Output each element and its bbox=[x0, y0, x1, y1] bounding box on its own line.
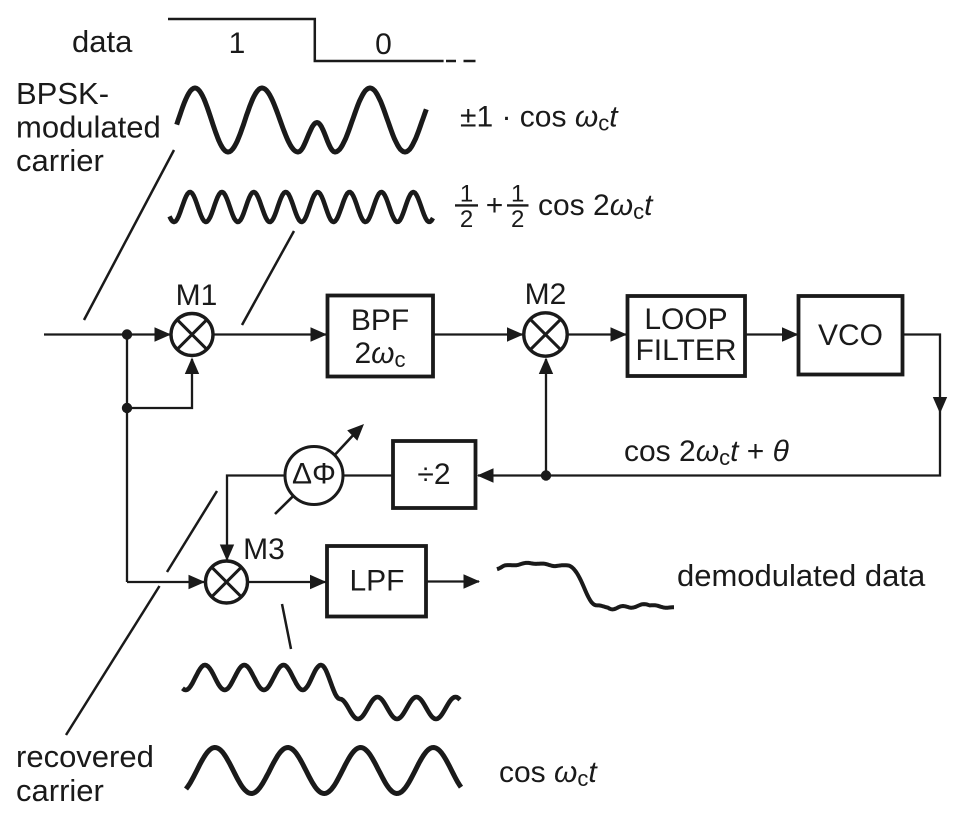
wire M2 to loop filter bbox=[567, 333, 626, 335]
svg-text:LOOP: LOOP bbox=[644, 303, 727, 336]
svg-text:M1: M1 bbox=[176, 279, 218, 312]
svg-text:BPF: BPF bbox=[351, 304, 409, 337]
svg-text:M3: M3 bbox=[243, 533, 285, 566]
BPSK modulated carrier waveform bbox=[177, 88, 427, 152]
wire phase shifter to M3 bbox=[227, 476, 285, 561]
mixer M3 bbox=[206, 561, 248, 603]
input wire bbox=[44, 333, 170, 335]
squared 2wc waveform bbox=[170, 192, 434, 222]
pointer line from M3 to product waveform bbox=[282, 604, 291, 649]
tap wire into M1 lower port bbox=[127, 359, 192, 408]
junction node on feedback wire bbox=[541, 470, 551, 480]
BPF box bbox=[328, 296, 434, 377]
divide-by-2 box bbox=[393, 441, 476, 508]
vertical tap wire from input node bbox=[126, 335, 128, 583]
arrow into divider bbox=[477, 468, 494, 482]
recovered carrier waveform bbox=[186, 748, 461, 794]
pointer line from recovered carrier label (upper part) bbox=[167, 491, 217, 572]
wire BPF to M2 bbox=[433, 333, 523, 335]
arrow down on feedback wire bbox=[933, 397, 947, 414]
arrow up into M2 bbox=[539, 358, 553, 375]
VCO output feedback wire bbox=[478, 335, 940, 476]
wire divider to phase shifter bbox=[343, 474, 393, 476]
pointer line from 2wc waveform to M1 output wire bbox=[242, 231, 294, 325]
svg-text:data: data bbox=[72, 24, 133, 59]
svg-text:1: 1 bbox=[460, 181, 473, 208]
arrow LPF output bbox=[464, 574, 481, 588]
svg-text:VCO: VCO bbox=[818, 319, 883, 352]
M3 product waveform bbox=[183, 665, 461, 719]
phase shifter variable arrow bbox=[275, 431, 357, 514]
svg-text:cos 2ωct + θ: cos 2ωct + θ bbox=[624, 435, 790, 470]
svg-text:+: + bbox=[486, 189, 504, 222]
svg-text:±1 · cos ωct: ±1 · cos ωct bbox=[460, 101, 619, 136]
svg-text:2: 2 bbox=[460, 206, 473, 233]
wire feedback node up into M2 bbox=[545, 359, 547, 476]
arrow into VCO bbox=[782, 327, 799, 341]
svg-text:÷2: ÷2 bbox=[417, 458, 450, 491]
svg-text:demodulated data: demodulated data bbox=[677, 558, 926, 593]
arrow into BPF bbox=[311, 327, 328, 341]
wire tap to M3 bbox=[127, 581, 205, 583]
arrow up into M1 bbox=[185, 358, 199, 375]
VCO box bbox=[799, 296, 903, 375]
data step waveform bbox=[168, 19, 444, 61]
svg-text:carrier: carrier bbox=[16, 773, 104, 808]
svg-text:ΔΦ: ΔΦ bbox=[292, 458, 336, 491]
wire M1 to BPF bbox=[213, 333, 326, 335]
LPF box bbox=[327, 546, 426, 617]
svg-text:1: 1 bbox=[229, 27, 246, 60]
data step continuation dashes bbox=[446, 60, 476, 63]
mixer M2 bbox=[524, 313, 567, 356]
arrow into M1 bbox=[155, 327, 172, 341]
svg-text:recovered: recovered bbox=[16, 739, 154, 774]
svg-text:M2: M2 bbox=[525, 278, 567, 311]
svg-text:BPSK-: BPSK- bbox=[16, 76, 109, 111]
junction node on input wire bbox=[122, 329, 132, 339]
phase shifter circle bbox=[285, 447, 343, 505]
loop filter box bbox=[628, 296, 746, 376]
junction node on tap wire bbox=[122, 403, 132, 413]
wire LPF output bbox=[426, 580, 479, 582]
demodulated data waveform bbox=[497, 563, 674, 610]
pointer line from BPSK carrier label to input wire bbox=[84, 150, 174, 320]
mixer M1 bbox=[171, 314, 213, 356]
pointer line from recovered carrier label (lower part) bbox=[66, 586, 160, 735]
wire M3 to LPF bbox=[248, 581, 326, 583]
svg-text:0: 0 bbox=[375, 28, 392, 61]
arrow into M3 from tap bbox=[189, 575, 206, 589]
svg-text:FILTER: FILTER bbox=[635, 334, 736, 367]
arrow into loop filter bbox=[611, 327, 628, 341]
wire loop filter to VCO bbox=[745, 333, 798, 335]
svg-text:1: 1 bbox=[511, 181, 524, 208]
svg-text:modulated: modulated bbox=[16, 110, 161, 145]
arrow down into M3 bbox=[220, 545, 234, 562]
arrow into LPF bbox=[310, 575, 327, 589]
svg-text:LPF: LPF bbox=[349, 565, 404, 598]
svg-text:carrier: carrier bbox=[16, 143, 104, 178]
arrow into M2 bbox=[507, 327, 524, 341]
svg-text:2: 2 bbox=[511, 206, 524, 233]
